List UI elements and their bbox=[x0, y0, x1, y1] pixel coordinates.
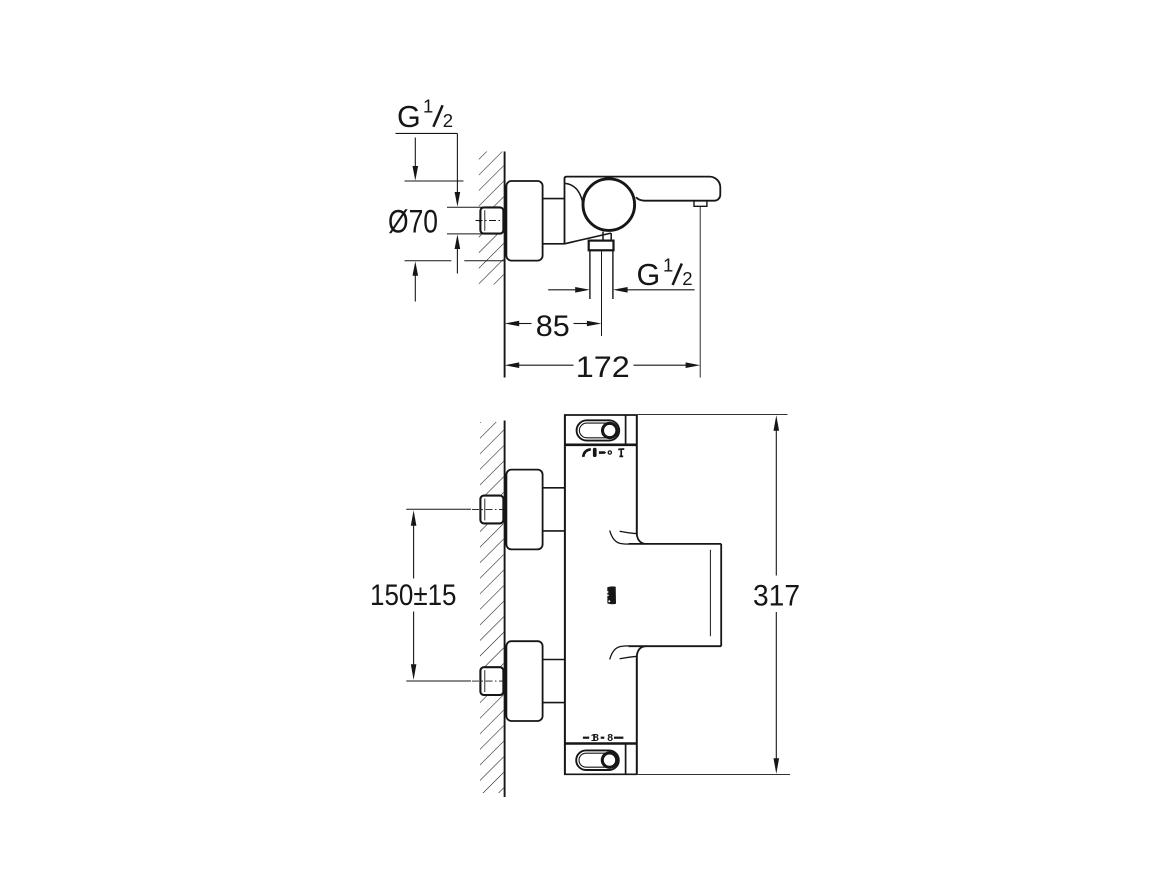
top lever knob circle bbox=[603, 423, 617, 437]
Ø70 extension line bottom bbox=[405, 260, 452, 262]
housing inner edge line bbox=[709, 550, 711, 636]
150 arrow down bbox=[411, 664, 417, 680]
escutcheon (wall flange, top view) bbox=[506, 181, 542, 261]
svg-text:2: 2 bbox=[443, 110, 453, 131]
nut centerline bbox=[476, 220, 505, 222]
thermostat column right edge upper bbox=[636, 415, 638, 534]
317 extension line bottom bbox=[637, 773, 790, 775]
wall line (bottom view) bbox=[504, 421, 506, 798]
wall hatch (bottom view) bbox=[480, 422, 504, 793]
icon tap symbol bbox=[618, 449, 624, 456]
icon bold dash bbox=[599, 451, 606, 454]
icon thermometer bbox=[593, 448, 597, 457]
top lever pill outer bbox=[577, 420, 620, 440]
lower connector pipe bbox=[543, 659, 565, 661]
dimension 172 bbox=[505, 362, 520, 368]
lower union nut (bottom view) bbox=[480, 667, 503, 695]
svg-text:317: 317 bbox=[753, 580, 800, 613]
G1/2 nut arrow up bbox=[455, 234, 461, 249]
upper connector pipe bbox=[543, 487, 565, 489]
bottom lever pill outer bbox=[576, 750, 619, 770]
bottom lever pill inner bbox=[579, 753, 614, 767]
body bottom diagonal bbox=[565, 233, 611, 244]
svg-text:Ø70: Ø70 bbox=[388, 204, 438, 240]
junction curve bottom small bbox=[620, 656, 637, 659]
junction curve bottom large bbox=[610, 646, 629, 660]
outlet pipe bbox=[589, 250, 591, 299]
bottom handle block bbox=[564, 742, 637, 745]
svg-text:150±15: 150±15 bbox=[370, 579, 457, 612]
housing right edge bbox=[720, 544, 722, 646]
dimension G1/2 outlet (pipe width) bbox=[548, 289, 576, 291]
lower escutcheon (bottom view) bbox=[506, 641, 542, 721]
mixer body and lever outline (top view) bbox=[565, 177, 721, 244]
body top-left fillet bbox=[565, 183, 583, 205]
top lever pill inner bbox=[579, 423, 614, 438]
outlet pipe centerline bbox=[601, 252, 603, 337]
dimension 85 bbox=[505, 321, 520, 327]
icon shower hook bbox=[583, 449, 591, 457]
upper nut centerline bbox=[472, 509, 504, 511]
thermostat housing (T shape) top edge bbox=[629, 543, 722, 545]
317 extension line top bbox=[637, 414, 788, 416]
bottom scale dash 3 bbox=[614, 737, 623, 739]
GROHE logo mark bbox=[607, 586, 616, 604]
icon small circle bbox=[608, 451, 611, 454]
bottom lever knob circle bbox=[602, 753, 616, 767]
317 dimension line bbox=[775, 430, 777, 576]
150 extension line top bbox=[406, 508, 471, 510]
column to housing corner top bbox=[637, 533, 646, 544]
150 arrow up bbox=[411, 510, 417, 526]
svg-text:1: 1 bbox=[423, 95, 433, 116]
upper union nut (bottom view) bbox=[480, 496, 503, 524]
G1/2 nut extension line top bbox=[447, 206, 485, 208]
Ø70 extension line top bbox=[405, 180, 464, 182]
317 arrow down bbox=[774, 758, 780, 774]
G1/2 nut extension line bottom bbox=[447, 233, 485, 235]
outlet neck below knob bbox=[602, 232, 604, 241]
wall hatch (top view) bbox=[479, 152, 504, 285]
150 dimension line bbox=[413, 525, 415, 579]
svg-text:G: G bbox=[637, 258, 661, 292]
bottom temperature scale dash 1 bbox=[583, 737, 589, 739]
G1/2 leader line bbox=[396, 132, 458, 134]
upper escutcheon (bottom view) bbox=[506, 470, 542, 550]
housing bottom edge bbox=[629, 645, 722, 647]
150 extension line bottom bbox=[406, 680, 471, 682]
wall line (top view) bbox=[504, 152, 506, 378]
thermostat column right edge lower bbox=[636, 657, 638, 775]
svg-text:G: G bbox=[397, 100, 421, 134]
nut inner facet line bbox=[484, 210, 486, 231]
aerator on spout bbox=[694, 201, 707, 207]
column to housing corner bottom bbox=[637, 646, 646, 657]
svg-text:85: 85 bbox=[536, 310, 570, 343]
top handle block bbox=[564, 414, 637, 416]
junction curve top large bbox=[610, 531, 629, 545]
dimension Ø70 arrows bbox=[414, 138, 416, 168]
G1/2 wall union nut (top view) bbox=[480, 207, 503, 233]
bottom scale dash 2 bbox=[601, 737, 605, 739]
317 arrow up bbox=[774, 415, 780, 431]
svg-text:1: 1 bbox=[663, 254, 673, 275]
svg-text:2: 2 bbox=[682, 268, 692, 289]
G1/2 leader arrow down bbox=[455, 192, 461, 207]
outlet nut bbox=[589, 241, 614, 251]
lower nut centerline bbox=[472, 680, 504, 682]
junction curve top small bbox=[620, 531, 637, 534]
extension line from aerator (172) bbox=[699, 207, 701, 378]
connector pipe escutcheon to body bbox=[543, 198, 565, 200]
thermostat column left edge bbox=[564, 415, 566, 775]
svg-text:172: 172 bbox=[576, 351, 630, 384]
knob circle (top view) bbox=[583, 179, 635, 231]
